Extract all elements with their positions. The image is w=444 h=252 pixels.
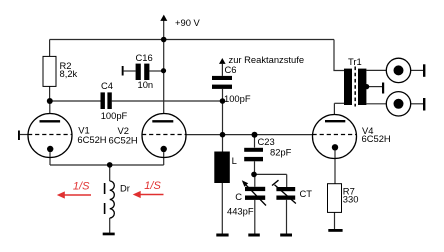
svg-text:L: L bbox=[232, 155, 237, 166]
wire L bottom lead bbox=[221, 183, 223, 234]
wire CT bottom lead bbox=[286, 200, 288, 234]
svg-text:+90 V: +90 V bbox=[175, 17, 201, 28]
capacitor C6 bbox=[212, 76, 232, 89]
V2 cathode dot bbox=[161, 146, 167, 152]
wire V2 anode line bbox=[163, 40, 165, 115]
wire R2 top lead bbox=[49, 40, 51, 57]
wire top supply rail bbox=[50, 39, 334, 41]
svg-text:1/S: 1/S bbox=[73, 180, 90, 192]
+90V arrow bbox=[160, 15, 167, 21]
wire V1 grid stub bbox=[20, 134, 29, 136]
wire V4 anode lead bbox=[333, 103, 335, 114]
wire C6 bottom lead bbox=[222, 89, 224, 101]
transformer Tr1 primary winding bbox=[344, 69, 352, 105]
triode V1 bbox=[28, 114, 72, 158]
wire C bottom lead bbox=[254, 200, 256, 234]
ground under C bbox=[248, 234, 259, 237]
ground under L bbox=[216, 234, 228, 237]
svg-text:6C52H: 6C52H bbox=[77, 134, 106, 145]
wire C6 node down to L bbox=[222, 101, 224, 152]
V1 grid terminal bar bbox=[18, 131, 20, 141]
svg-text:Tr1: Tr1 bbox=[348, 56, 362, 67]
Dr core dashes bbox=[104, 183, 106, 214]
arrow zur Reaktanzstufe bbox=[219, 58, 226, 64]
wire V1 anode lead bbox=[49, 101, 51, 114]
svg-text:8,2k: 8,2k bbox=[60, 68, 78, 79]
wire node to CT bbox=[254, 173, 287, 175]
wire top rail drop to Tr1 bbox=[334, 40, 344, 71]
wire C16 left lead bbox=[124, 70, 136, 72]
terminal bar J2 bbox=[423, 98, 425, 111]
transformer Tr1 core bbox=[354, 67, 356, 107]
svg-text:10n: 10n bbox=[138, 79, 154, 90]
triode V4 bbox=[313, 115, 357, 159]
node C16/V2 anode junction bbox=[161, 68, 166, 73]
inductor L bbox=[214, 152, 230, 184]
wire R2 bottom lead to node bbox=[49, 86, 51, 101]
node Tr1 tap bbox=[364, 84, 369, 89]
trimmer capacitor CT bbox=[276, 187, 295, 200]
C variable arrow bbox=[246, 184, 267, 205]
node R2/V1 anode/C4 junction bbox=[47, 98, 53, 104]
variable capacitor C bbox=[245, 187, 265, 200]
inductor Dr bbox=[110, 181, 115, 218]
wire C top lead bbox=[254, 174, 256, 186]
svg-text:443pF: 443pF bbox=[227, 206, 254, 217]
resistor R7 bbox=[328, 184, 342, 213]
wire jack J1 terminal lead bbox=[411, 69, 423, 71]
wire Tr1 primary bottom to V4 bbox=[334, 102, 344, 104]
terminal stub C16 left bbox=[122, 66, 124, 76]
ground under CT bbox=[280, 234, 292, 237]
wire node to C4 left bbox=[50, 100, 101, 102]
capacitor C23 bbox=[244, 148, 263, 161]
ground under R7 bbox=[328, 229, 342, 232]
wire R7 bottom lead bbox=[334, 212, 336, 229]
svg-text:82pF: 82pF bbox=[270, 147, 292, 158]
jack J2 bbox=[386, 92, 410, 116]
wire C16 right lead bbox=[149, 70, 163, 72]
triode V2 bbox=[142, 114, 186, 158]
wire Dr top lead bbox=[109, 165, 111, 181]
wire Dr bottom lead bbox=[109, 218, 111, 233]
V1 cathode dot bbox=[47, 146, 53, 152]
wire V2 cathode lead bbox=[163, 152, 165, 165]
node cathode rail / Dr junction bbox=[107, 162, 113, 168]
svg-text:330: 330 bbox=[343, 193, 359, 204]
wire CT top lead bbox=[286, 174, 288, 187]
node +90V junction bbox=[161, 37, 167, 43]
wire +90V stub bbox=[163, 21, 165, 40]
wire C23 top lead bbox=[254, 135, 256, 148]
svg-text:6C52H: 6C52H bbox=[109, 135, 138, 146]
svg-text:C16: C16 bbox=[136, 52, 153, 63]
svg-text:zur Reaktanzstufe: zur Reaktanzstufe bbox=[229, 54, 305, 65]
svg-text:CT: CT bbox=[300, 188, 313, 199]
resistor R2 bbox=[43, 56, 56, 86]
wire Tr1 tap lead bbox=[366, 86, 382, 88]
svg-text:100pF: 100pF bbox=[224, 93, 251, 104]
node grid/L junction bbox=[220, 132, 226, 138]
svg-text:100pF: 100pF bbox=[101, 110, 128, 121]
ground under Dr bbox=[103, 233, 115, 236]
node grid/C23 junction bbox=[252, 132, 258, 138]
wire V4 cathode lead bbox=[334, 151, 336, 184]
svg-text:C4: C4 bbox=[101, 80, 113, 91]
wire C4 right to C6 node bbox=[112, 100, 223, 102]
svg-text:C23: C23 bbox=[258, 136, 275, 147]
terminal bar tap bbox=[382, 83, 384, 94]
node C23/C/CT junction bbox=[251, 172, 257, 178]
V4 cathode dot bbox=[332, 144, 338, 150]
wire C6 top lead bbox=[221, 64, 223, 76]
CT trimmer shaft bbox=[275, 185, 296, 204]
wire Tr1 secondary top to jack bbox=[366, 69, 386, 71]
svg-text:1/S: 1/S bbox=[144, 180, 161, 192]
transformer Tr1 secondary winding bbox=[358, 69, 366, 105]
wire Tr1 secondary bottom to jack bbox=[366, 103, 386, 105]
red arrow left 1/S bbox=[57, 191, 91, 198]
CT trimmer tee bbox=[272, 180, 279, 185]
red arrow right 1/S bbox=[133, 191, 164, 198]
svg-text:C: C bbox=[235, 191, 242, 202]
capacitor C4 bbox=[101, 92, 112, 109]
svg-text:C6: C6 bbox=[225, 64, 237, 75]
node C6/L junction bbox=[220, 98, 226, 104]
svg-text:6C52H: 6C52H bbox=[362, 133, 391, 144]
wire V1 cathode lead bbox=[49, 152, 51, 165]
jack J1 bbox=[386, 58, 410, 82]
wire cathode rail bbox=[50, 164, 164, 166]
wire grid net V2 to V4 bbox=[186, 134, 313, 136]
terminal bar J1 bbox=[423, 64, 425, 77]
wire C23 bottom lead bbox=[254, 161, 256, 174]
wire jack J2 terminal lead bbox=[411, 103, 423, 105]
svg-text:Dr: Dr bbox=[120, 182, 130, 193]
capacitor C16 bbox=[136, 64, 150, 80]
